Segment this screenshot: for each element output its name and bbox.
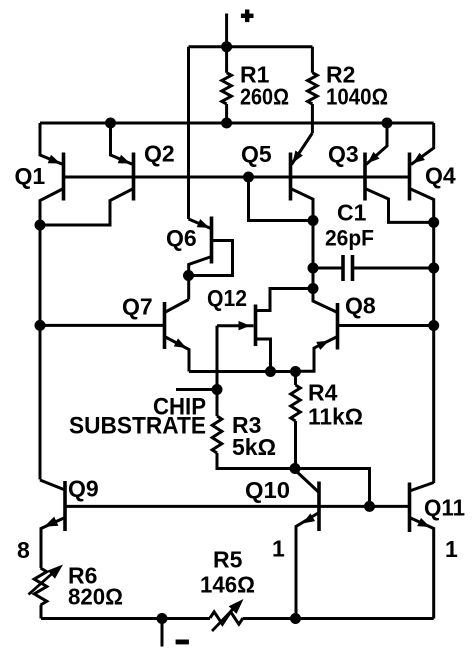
svg-text:R5: R5 (213, 547, 243, 573)
svg-text:SUBSTRATE: SUBSTRATE (69, 413, 206, 440)
svg-text:8: 8 (17, 537, 30, 563)
svg-text:146Ω: 146Ω (200, 572, 255, 598)
svg-text:Q9: Q9 (68, 476, 99, 502)
svg-text:Q12: Q12 (207, 285, 247, 311)
svg-text:Q8: Q8 (345, 293, 376, 319)
svg-text:Q11: Q11 (424, 495, 465, 521)
svg-text:1: 1 (272, 536, 285, 562)
svg-text:Q4: Q4 (425, 163, 456, 189)
svg-text:Q3: Q3 (328, 141, 359, 167)
svg-text:Q1: Q1 (15, 163, 46, 189)
svg-text:Q5: Q5 (241, 141, 272, 167)
svg-text:Q6: Q6 (166, 225, 197, 251)
svg-text:Q2: Q2 (144, 141, 175, 167)
svg-text:260Ω: 260Ω (240, 84, 289, 110)
svg-text:11kΩ: 11kΩ (308, 404, 363, 430)
svg-text:Q7: Q7 (122, 294, 153, 320)
svg-text:5kΩ: 5kΩ (232, 434, 276, 460)
svg-text:Q10: Q10 (245, 477, 290, 503)
svg-text:1040Ω: 1040Ω (326, 84, 388, 110)
svg-text:26pF: 26pF (325, 226, 374, 251)
svg-text:C1: C1 (337, 200, 367, 226)
svg-text:1: 1 (445, 536, 458, 562)
svg-text:820Ω: 820Ω (68, 584, 123, 610)
svg-text:R4: R4 (308, 380, 338, 406)
